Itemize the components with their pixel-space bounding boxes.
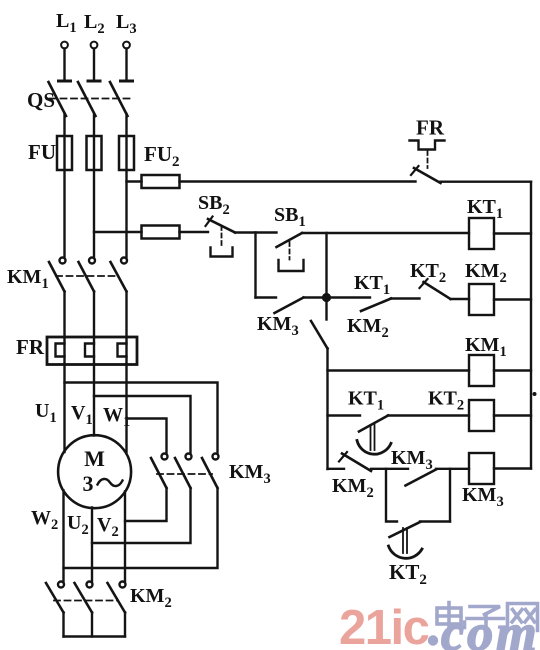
coil KT1: [469, 218, 494, 249]
wire SB2 output down: [254, 233, 256, 298]
switch QS pole2: [88, 80, 100, 83]
watermark char zi: [467, 607, 504, 629]
contact KM2 NC blade: [342, 454, 371, 472]
contactor KM3 main contact 3: [213, 454, 219, 460]
contactor KM1 main contact 1: [60, 258, 66, 264]
contact KT1 delayed NO blade: [359, 416, 388, 432]
wire row2 mid: [391, 297, 420, 299]
contact KM2 NO vertical blade: [311, 321, 328, 349]
wire V2 motor to KM2: [124, 492, 126, 582]
svg-text:L3: L3: [116, 11, 137, 37]
wire branch U1 to KM3 contact3: [65, 383, 218, 454]
contact KT2 delayed blade: [390, 522, 421, 537]
relay FR heater 3: [118, 344, 127, 357]
svg-text:KT1: KT1: [348, 388, 384, 414]
svg-text:21ic: 21ic: [339, 601, 429, 650]
wire phase1 QS to KM1: [63, 114, 65, 257]
svg-text:L2: L2: [84, 11, 105, 37]
wire left branch vertical: [326, 349, 328, 470]
svg-text:KT2: KT2: [389, 560, 427, 588]
wire row4 left: [328, 414, 361, 416]
contactor KM2 main contact 2: [87, 582, 93, 588]
svg-text:FR: FR: [16, 335, 45, 359]
terminal L3: [123, 42, 130, 49]
fuse FU pole2: [87, 136, 102, 170]
svg-text:3: 3: [83, 471, 94, 496]
terminal L1: [61, 42, 68, 49]
contact KM3 NO self-hold row5 blade: [406, 470, 437, 486]
contact KT1 NO blade: [361, 299, 391, 312]
relay FR thermal box: [47, 337, 137, 365]
wire row5 to KM3 coil: [436, 468, 469, 470]
contactor KM2 main contact 3: [120, 582, 126, 588]
button SB1 NO blade: [277, 233, 303, 247]
wire branch W1 to KM3 contact1: [127, 419, 167, 454]
switch QS pole3: [121, 80, 133, 83]
contactor KM3 linkage dashed: [157, 473, 212, 475]
svg-text:L1: L1: [56, 10, 77, 36]
svg-text:KM2: KM2: [130, 585, 172, 611]
node junction: [323, 294, 330, 301]
fuse FU pole1: [57, 136, 72, 170]
svg-text:FU2: FU2: [144, 142, 180, 170]
wire row2 left: [256, 296, 277, 298]
contact KT2 delay ticks: [402, 528, 404, 553]
svg-text:KT2: KT2: [428, 388, 464, 414]
wire phase2 KM1 to FR: [93, 292, 95, 338]
svg-text:KM3: KM3: [257, 313, 299, 339]
wire phase3 FR to motor W1: [125, 364, 127, 452]
contact KT2 delay arc: [389, 546, 423, 558]
wire node down: [325, 298, 327, 320]
wire KT2 branch left vertical: [386, 469, 397, 522]
wire L1 drop: [63, 49, 65, 81]
wire row4 to KT2 coil: [388, 414, 469, 416]
wire phase2 QS to KM1: [93, 114, 95, 257]
contact KT1 delay arc: [357, 441, 391, 455]
wire row2 to node: [304, 296, 371, 298]
watermark char wang: [508, 604, 538, 631]
fuse FU2 upper: [142, 175, 180, 188]
wire KT2 branch bottom right: [420, 520, 450, 522]
svg-text:KM2: KM2: [332, 475, 374, 501]
contact KT1 delay ticks: [370, 425, 372, 450]
svg-text:V2: V2: [97, 514, 119, 540]
wire branch V2 to KM3 contact1 bottom: [125, 488, 167, 521]
contactor KM1 main contact 2: [89, 258, 95, 264]
wire branch V1 to KM3 contact2: [94, 396, 191, 453]
relay FR heater 1: [56, 344, 65, 357]
terminal L2: [91, 42, 98, 49]
contact KT2 NC blade: [424, 282, 451, 299]
svg-text:U1: U1: [35, 400, 57, 426]
wire phase1 KM1 to FR: [63, 292, 65, 338]
contact KM3 NO self-hold blade: [275, 298, 304, 314]
relay FR contact actuator bracket: [410, 141, 445, 150]
svg-text:QS: QS: [27, 88, 55, 112]
button SB1 cap: [279, 260, 304, 271]
wire KT2 branch right vertical: [449, 469, 451, 522]
wire row5 left: [328, 468, 345, 470]
svg-text:W2: W2: [31, 507, 58, 533]
contactor KM3 main contact 1: [162, 454, 168, 460]
contactor KM2 main contact 1: [58, 582, 64, 588]
svg-text:SB2: SB2: [198, 192, 230, 218]
wire SB1 to KT1 coil: [302, 232, 469, 234]
wire phase2 FR to motor V1: [93, 364, 95, 436]
wire row3: [328, 369, 470, 371]
svg-text:M: M: [84, 446, 105, 471]
wire control branch top: [127, 180, 142, 182]
svg-text:FR: FR: [416, 116, 445, 140]
motor M 3-phase: [58, 435, 131, 508]
switch QS pole1: [59, 80, 71, 83]
wire L2 drop: [93, 49, 95, 81]
svg-text:U2: U2: [67, 512, 89, 538]
wire phase3 QS to KM1: [125, 114, 127, 257]
coil KT2: [469, 400, 494, 431]
fuse FU pole3: [119, 136, 134, 170]
svg-text:KM1: KM1: [7, 266, 49, 292]
contactor KM2 linkage dashed: [54, 600, 118, 602]
wire row5 mid: [371, 468, 408, 470]
wire phase1 FR to motor U1: [63, 364, 65, 452]
relay FR contact dashed link: [427, 151, 429, 168]
coil KM1: [469, 355, 494, 386]
wire branch U2 to KM3 contact2 bottom: [92, 488, 191, 543]
wire star point bus: [64, 635, 126, 637]
wire L3 drop: [125, 49, 127, 81]
svg-text:KM2: KM2: [465, 260, 507, 286]
contactor KM1 linkage dashed: [56, 275, 119, 277]
button SB1 dashed actuator: [289, 242, 291, 260]
relay FR heater 2: [85, 344, 94, 357]
watermark dot: [428, 635, 438, 645]
wire branch W2 to KM3 contact3 bottom: [64, 488, 218, 568]
coil KM3: [469, 453, 494, 484]
relay FR NC contact blade: [414, 168, 441, 183]
watermark char dian: [437, 603, 465, 628]
button SB2 dashed actuator: [221, 226, 223, 247]
switch QS linkage dashed: [50, 98, 134, 100]
wire U2 motor to KM2: [91, 508, 93, 582]
fuse FU2 lower: [142, 226, 180, 239]
coil KM2: [469, 284, 494, 315]
svg-text:SB1: SB1: [274, 204, 306, 230]
wire KM2 bottoms: [62, 613, 64, 637]
svg-text:KT1: KT1: [354, 272, 390, 298]
wire top rail right: [441, 180, 532, 182]
wire row2 to KM2 coil: [451, 298, 470, 300]
button SB2 NC blade: [208, 219, 235, 233]
svg-text:KM3: KM3: [462, 484, 504, 510]
svg-text:FU: FU: [28, 140, 56, 164]
wire W2 motor to KM2: [62, 491, 64, 582]
wire SB1 output down to node: [325, 233, 327, 298]
svg-text:V1: V1: [71, 402, 93, 428]
wire phase1 through FR: [63, 337, 65, 364]
svg-text:KM2: KM2: [347, 315, 389, 341]
contactor KM3 main contact 2: [186, 454, 192, 460]
contactor KM1 main contact 3: [121, 258, 127, 264]
svg-text:KT2: KT2: [410, 260, 446, 286]
svg-text:KM3: KM3: [229, 461, 271, 487]
wire SB2 to SB1: [235, 231, 277, 233]
button SB2 cap: [211, 248, 233, 257]
artifact dot: [533, 392, 537, 396]
wire right rail: [530, 182, 532, 469]
wire control branch lower: [94, 231, 142, 233]
wire phase3 KM1 to FR: [125, 292, 127, 338]
